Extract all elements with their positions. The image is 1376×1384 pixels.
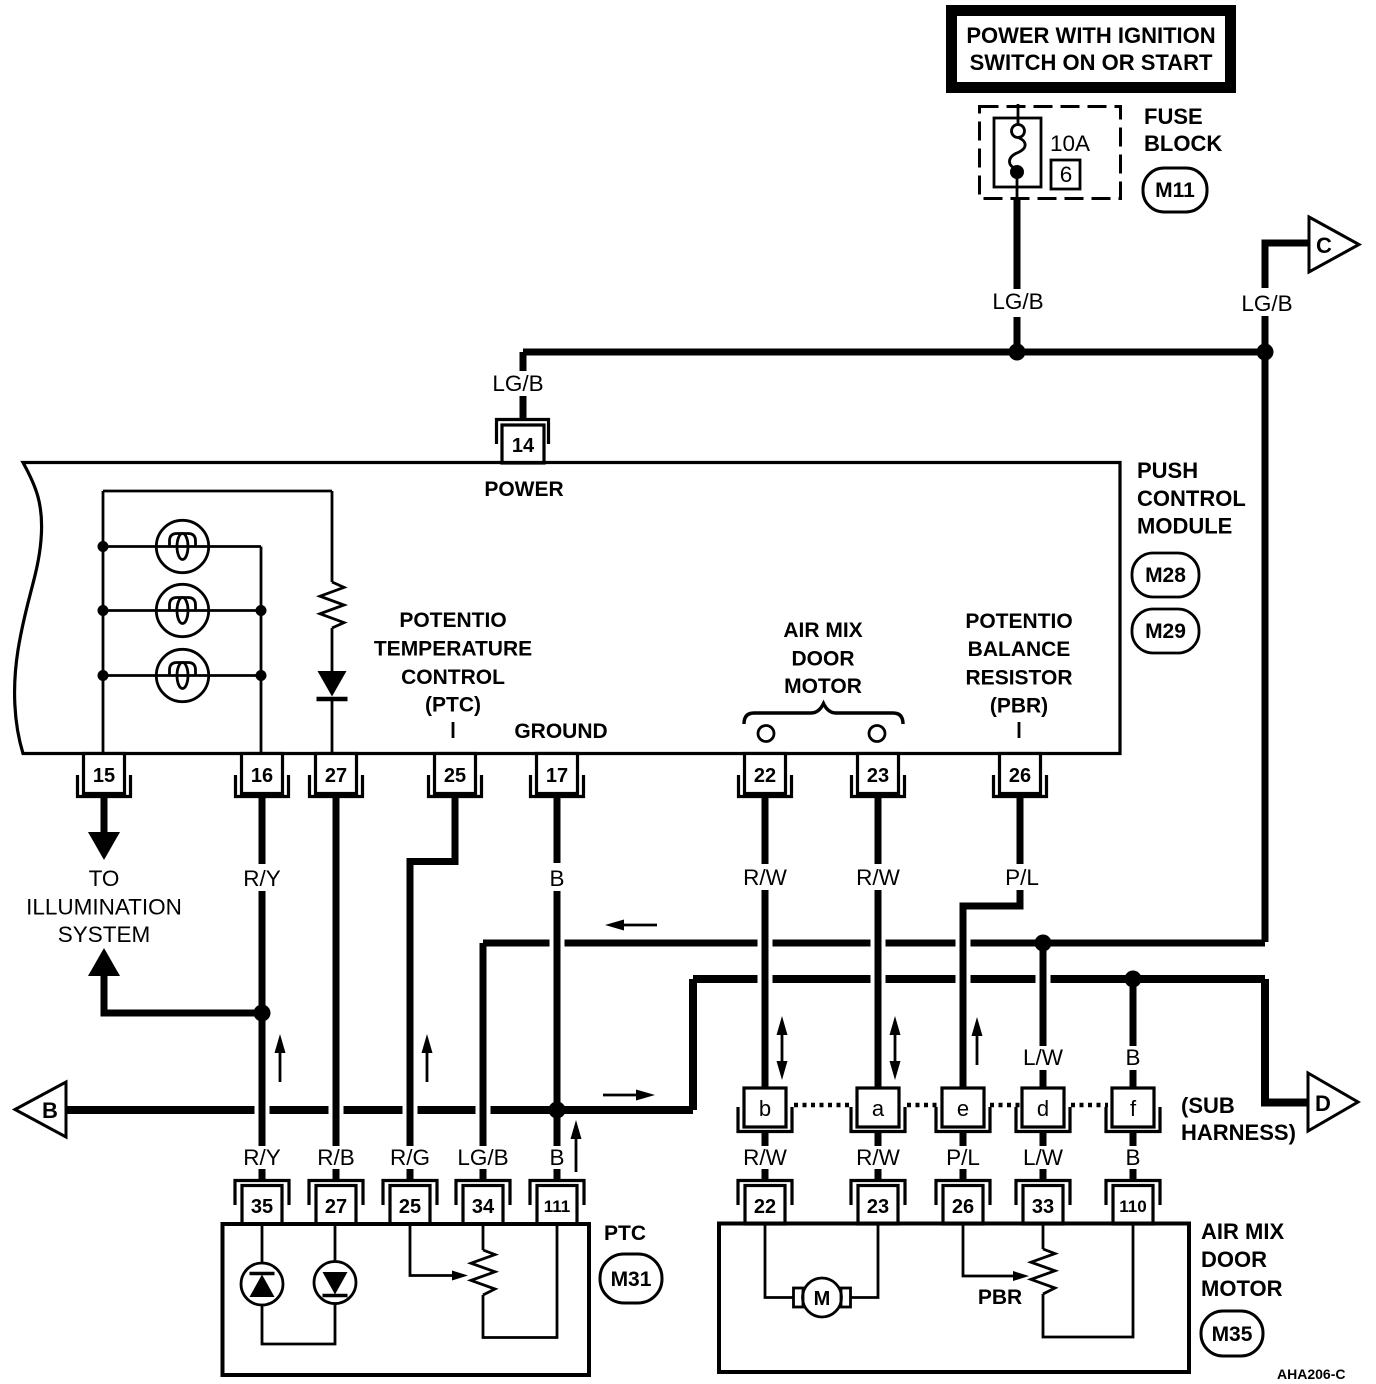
wire R/Y to 35 [259,1169,266,1180]
svg-text:23: 23 [867,1196,889,1218]
connector pin 35 [235,1181,289,1225]
arrow to illumination (down) [88,832,120,860]
svg-text:B: B [549,866,564,891]
label AIR MIX DOOR MOTOR [1201,1219,1284,1301]
svg-text:M29: M29 [1145,620,1186,643]
svg-text:GROUND: GROUND [514,720,607,743]
svg-text:AIR MIX: AIR MIX [1201,1219,1284,1244]
svg-text:22: 22 [754,1196,776,1218]
wire stub to 22 [762,1169,769,1181]
wire R/G to 25 (PTC) [407,1169,414,1180]
junction dot R/Y branch [254,1005,271,1022]
brace over motor pins [744,704,903,725]
arrow up (B direction) [571,1120,582,1172]
connector pin 25 (module) [429,754,482,797]
wire LG/B horizontal (row 1) [483,940,1265,947]
wire B from 17 [554,798,561,863]
svg-text:RESISTOR: RESISTOR [966,667,1073,690]
arrow right (B direction) [603,1090,655,1101]
svg-text:R/Y: R/Y [243,866,281,891]
svg-text:M: M [814,1288,831,1310]
wire fuse to bus LG/B [1014,200,1021,289]
svg-text:35: 35 [251,1196,273,1218]
svg-text:TEMPERATURE: TEMPERATURE [374,638,532,661]
label POTENTIO BALANCE RESISTOR (PBR) [965,610,1072,718]
svg-text:LG/B: LG/B [492,371,543,396]
fuse F6 symbol [1009,104,1025,199]
connector C triangle [1309,217,1359,272]
svg-text:CONTROL: CONTROL [1137,486,1246,511]
wire LG/B to 34 (PTC) [480,1169,487,1180]
svg-text:TO: TO [89,866,120,891]
svg-text:(SUB: (SUB [1181,1093,1235,1118]
wire B continues [554,891,561,1146]
diode D (module internal) [317,671,348,754]
svg-text:10A: 10A [1050,131,1090,156]
wire P/L from 26 [1017,798,1024,864]
wire R/G from 25 (jog) [410,798,455,1146]
svg-text:AIR MIX: AIR MIX [783,619,862,642]
svg-text:R/B: R/B [317,1145,355,1170]
svg-text:LG/B: LG/B [457,1145,508,1170]
svg-text:d: d [1037,1096,1049,1121]
lamp row 2 wire [103,609,261,612]
wire R/W from 22 [762,798,769,864]
label TO ILLUMINATION SYSTEM [26,866,182,947]
left lamp rail [102,491,105,754]
connector pin 23 (module) [852,754,905,797]
svg-text:B: B [42,1098,58,1123]
wire motor to 23 [851,1223,879,1298]
svg-text:M31: M31 [611,1268,652,1291]
svg-text:(PTC): (PTC) [425,694,481,717]
top horizontal bus LG/B [523,349,1265,356]
svg-text:22: 22 [754,765,776,787]
svg-text:MOTOR: MOTOR [784,675,862,698]
wire stub to 23 [875,1169,882,1181]
svg-text:B: B [1125,1045,1140,1070]
wire stub bus to connector 14 [520,352,527,371]
wire illumination branch [104,973,262,1013]
svg-text:POWER WITH IGNITION: POWER WITH IGNITION [966,23,1215,48]
svg-text:33: 33 [1032,1196,1054,1218]
arrow up (P/L direction) [972,1017,983,1065]
junction dot [1257,344,1274,361]
label PUSH CONTROL MODULE [1137,458,1246,539]
wire LG/B right vertical to lower area [1262,352,1269,942]
svg-text:17: 17 [546,765,568,787]
LED diode 2 (PTC) [314,1262,356,1304]
svg-text:DOOR: DOOR [792,648,855,671]
svg-text:f: f [1130,1096,1137,1121]
wire R/B from 27 [333,798,340,1146]
wire stub below e [960,1131,967,1146]
label AIR MIX DOOR MOTOR [783,619,862,698]
connector pin a [851,1088,905,1132]
wire 35 to LED 1 [261,1224,264,1263]
wire LED2 to 27 [334,1224,337,1262]
resistor (module internal) [320,491,344,671]
connector pin 17 [531,754,584,797]
connector pin b [738,1088,792,1132]
connector 14 (push control module pin) [497,420,549,464]
label FUSE BLOCK [1144,104,1222,156]
wire R/W continues to b [762,890,769,1087]
svg-text:AHA206-C: AHA206-C [1277,1366,1345,1382]
arrow left (LG/B direction) [605,920,657,931]
label POTENTIO TEMPERATURE CONTROL (PTC) [374,609,532,717]
svg-text:LG/B: LG/B [992,289,1043,314]
wire [1014,317,1021,352]
svg-text:R/W: R/W [856,865,901,890]
illumination lamp 2 [156,584,208,636]
illumination lamp 1 [156,520,208,572]
wire LG/B down to 34 [480,943,487,1146]
svg-text:R/W: R/W [743,1145,788,1170]
lamp row 3 wire [103,674,261,677]
svg-text:R/W: R/W [743,865,788,890]
connector ref M35 [1201,1311,1263,1356]
wire B bus corner up [689,979,697,1110]
arrow up (R/G direction) [422,1034,433,1082]
wire B stub to f [1130,1070,1137,1087]
connector pin 27 (module) [310,754,363,797]
LED diode 1 (PTC) [241,1263,283,1305]
junction dot L/W branch [1035,935,1052,952]
wire B to f [1130,979,1137,1046]
connector B triangle [15,1082,66,1137]
wire R/W from 23 [875,798,882,864]
arrow from illumination (up) [88,948,120,976]
connector pin 110 (motor) [1106,1181,1160,1225]
PBR resistor (motor box) [1031,1223,1133,1337]
svg-text:POWER: POWER [484,478,563,501]
svg-text:CONTROL: CONTROL [401,666,505,689]
connector pin f [1106,1088,1160,1132]
svg-text:111: 111 [544,1197,571,1216]
wire 15 to illumination [101,798,108,836]
svg-text:PBR: PBR [978,1286,1022,1309]
junction dot f branch [1125,971,1142,988]
connector pin 15 [78,754,131,797]
connector pin 25 (PTC) [383,1181,437,1225]
junction dot [1009,344,1026,361]
connector pin 26 (motor) [936,1181,990,1225]
fuse cartridge rectangle [994,118,1041,187]
connector ref M11 [1143,168,1207,212]
wire B horizontal (row 2) [693,975,1265,983]
svg-text:PTC: PTC [604,1222,646,1245]
pin tick PTC [452,722,455,738]
connector pin e [936,1088,990,1132]
air mix door motor box [719,1224,1189,1373]
connector pin 22 (motor) [738,1181,792,1225]
wire to connector C [1265,243,1309,352]
wire B bus horizontal [66,1106,693,1114]
connector ref M29 [1132,609,1199,653]
arrow double (a) [890,1016,901,1080]
arrow up (R/Y direction) [275,1034,286,1082]
svg-text:e: e [957,1096,969,1121]
wire stub below d [1040,1131,1047,1146]
dotted link a-e [907,1103,937,1108]
wire stub below f [1130,1131,1137,1146]
svg-text:C: C [1316,233,1332,258]
svg-text:SYSTEM: SYSTEM [58,922,151,947]
wire B to 111 [554,1169,561,1180]
svg-text:B: B [549,1145,564,1170]
wire stub below a [875,1131,882,1146]
fuse block dashed box M11 [980,107,1121,199]
PTC wiper arrow from 25 [410,1224,468,1281]
PTC unit box [223,1224,590,1375]
wire stub to 33 [1040,1169,1047,1181]
right lamp rail [260,547,263,755]
junction dots lamp rails [98,541,109,552]
connector pin 33 (motor) [1016,1181,1070,1225]
connector pin 26 (module) [994,754,1047,797]
connector ref M28 [1132,553,1199,597]
svg-text:P/L: P/L [1005,865,1039,890]
svg-text:25: 25 [444,765,466,787]
motor M (air mix) [794,1278,851,1317]
svg-text:R/W: R/W [856,1145,901,1170]
svg-text:R/G: R/G [390,1145,430,1170]
connector pin 16 [236,754,289,797]
wire R/B to 27 (PTC) [333,1169,340,1180]
svg-text:b: b [759,1096,771,1121]
wire L/W to d [1040,943,1047,1046]
wire stub to 110 [1130,1169,1137,1181]
svg-text:P/L: P/L [946,1145,980,1170]
svg-text:BALANCE: BALANCE [968,638,1071,661]
connector pin 111 (PTC) [530,1181,584,1225]
connector pin 22 (module) [739,754,792,797]
pin tick PBR [1018,722,1021,738]
title box POWER WITH IGNITION SWITCH ON OR START [952,11,1231,88]
connector D triangle [1308,1073,1358,1131]
svg-text:POTENTIO: POTENTIO [965,610,1072,633]
connector pin 23 (motor) [851,1181,905,1225]
wire stub below b [762,1131,769,1146]
svg-text:M28: M28 [1145,564,1186,587]
svg-text:6: 6 [1060,162,1073,187]
svg-text:R/Y: R/Y [243,1145,281,1170]
svg-text:14: 14 [512,435,535,457]
illumination lamp 3 [156,649,208,701]
wire label LG/B (C branch) covering gap [1240,288,1293,316]
svg-text:BLOCK: BLOCK [1144,131,1222,156]
connector pin 27 (PTC) [309,1181,363,1225]
lamp row 1 wire [103,545,261,548]
label (SUB HARNESS) [1181,1093,1296,1145]
wire L/W stub [1040,1070,1047,1087]
wire 22 to motor [765,1223,794,1298]
svg-text:23: 23 [867,765,889,787]
svg-text:27: 27 [325,765,347,787]
svg-text:POTENTIO: POTENTIO [399,609,506,632]
svg-text:27: 27 [325,1196,347,1218]
connector pin 34 (PTC) [456,1181,510,1225]
wire P/L jog to e [963,890,1020,1087]
svg-text:LG/B: LG/B [1241,291,1292,316]
svg-text:(PBR): (PBR) [990,695,1048,718]
PTC potentiometer resistor [471,1224,557,1338]
PBR wiper arrow from 26 [963,1223,1029,1281]
pin O left [758,726,774,742]
svg-text:16: 16 [251,765,273,787]
svg-text:26: 26 [1009,765,1031,787]
svg-text:ILLUMINATION: ILLUMINATION [26,895,182,920]
dotted link b-a [794,1103,851,1108]
svg-text:L/W: L/W [1023,1045,1064,1070]
svg-text:MOTOR: MOTOR [1201,1276,1283,1301]
connector ref M31 [600,1254,662,1303]
svg-text:M11: M11 [1155,179,1195,202]
svg-text:15: 15 [93,765,115,787]
arrow double (b) [777,1016,788,1080]
svg-text:25: 25 [399,1196,421,1218]
wire LED1 to LED2 [262,1304,335,1345]
svg-text:MODULE: MODULE [1137,514,1232,539]
svg-text:DOOR: DOOR [1201,1247,1267,1272]
wire [520,396,527,418]
wire R/Y from 16 [259,798,266,864]
wire B to connector D [1265,979,1308,1103]
svg-text:34: 34 [472,1196,495,1218]
svg-text:L/W: L/W [1023,1145,1064,1170]
svg-text:M35: M35 [1212,1323,1253,1346]
svg-text:SWITCH ON OR START: SWITCH ON OR START [970,50,1213,75]
dotted link e-d [990,1103,1020,1108]
connector pin d [1016,1088,1070,1132]
svg-text:FUSE: FUSE [1144,104,1203,129]
pin O right [869,726,885,742]
junction dot B bus [549,1102,566,1119]
wire R/W continues to a [875,890,882,1087]
svg-text:110: 110 [1119,1197,1146,1216]
svg-text:PUSH: PUSH [1137,458,1198,483]
svg-text:HARNESS): HARNESS) [1181,1120,1296,1145]
svg-text:B: B [1125,1145,1140,1170]
fuse number 6 box [1051,160,1080,189]
wire R/Y continues [259,891,266,1146]
svg-text:26: 26 [952,1196,974,1218]
wire stub to 26 [960,1169,967,1181]
dotted link d-f [1071,1103,1108,1108]
lamp supply rail (top) [103,490,332,493]
svg-text:D: D [1315,1091,1331,1116]
svg-text:a: a [872,1096,885,1121]
push control module box (torn left edge) [15,463,1120,754]
